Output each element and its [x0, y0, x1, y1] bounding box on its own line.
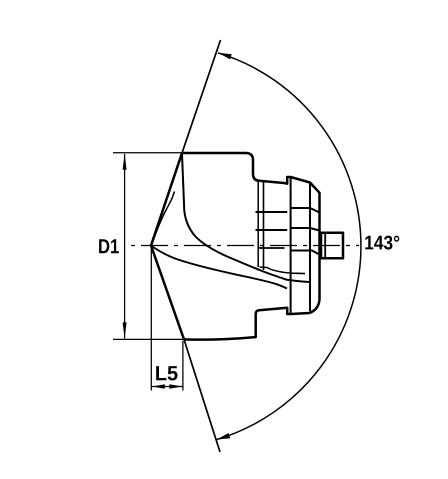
- clamping stub: [321, 233, 343, 258]
- L5 left extension line: [150, 248, 152, 391]
- lower point-angle extension line: [184, 339, 220, 452]
- lip curve from tip: [152, 246, 288, 289]
- L5 arrow right: [169, 384, 182, 389]
- collar 2 groove line C: [291, 251, 320, 255]
- front face / flute silhouette curve: [182, 154, 309, 282]
- drill insert body outline: [151, 153, 320, 340]
- D1 arrow up: [123, 153, 127, 169]
- collar 1 groove line C: [258, 247, 285, 249]
- L5 right extension line: [182, 341, 184, 391]
- arc arrowhead upper: [218, 53, 232, 60]
- D1 dimension line: [124, 154, 126, 339]
- D1 arrow down: [123, 322, 127, 338]
- collar 1 groove line B: [256, 229, 288, 231]
- centerline: [131, 245, 359, 247]
- angle arc: [217, 53, 361, 440]
- D1 label: [99, 239, 119, 253]
- L5 arrow left: [152, 384, 165, 389]
- collar 2 groove line A: [291, 208, 320, 213]
- gash edge near tip: [152, 192, 175, 246]
- D1 top extension line: [113, 152, 182, 154]
- collar 2 chamfer edge: [309, 183, 311, 312]
- collar 1 groove line A: [256, 211, 288, 213]
- arc arrowhead lower: [217, 433, 231, 440]
- D1 bottom extension line: [113, 338, 184, 340]
- upper point-angle extension line: [182, 40, 221, 153]
- L5 dimension line: [151, 386, 183, 388]
- collar 1 notch ledge: [260, 267, 306, 274]
- collar 1 left edge land line: [257, 181, 259, 267]
- 143 degree label: [365, 236, 399, 250]
- collar 1 land line 2: [263, 182, 265, 271]
- stub inner flange line: [324, 233, 326, 258]
- L5 label: [156, 366, 177, 380]
- collar 2 left edge inner line: [290, 177, 292, 314]
- collar 2 groove line B: [291, 228, 320, 231]
